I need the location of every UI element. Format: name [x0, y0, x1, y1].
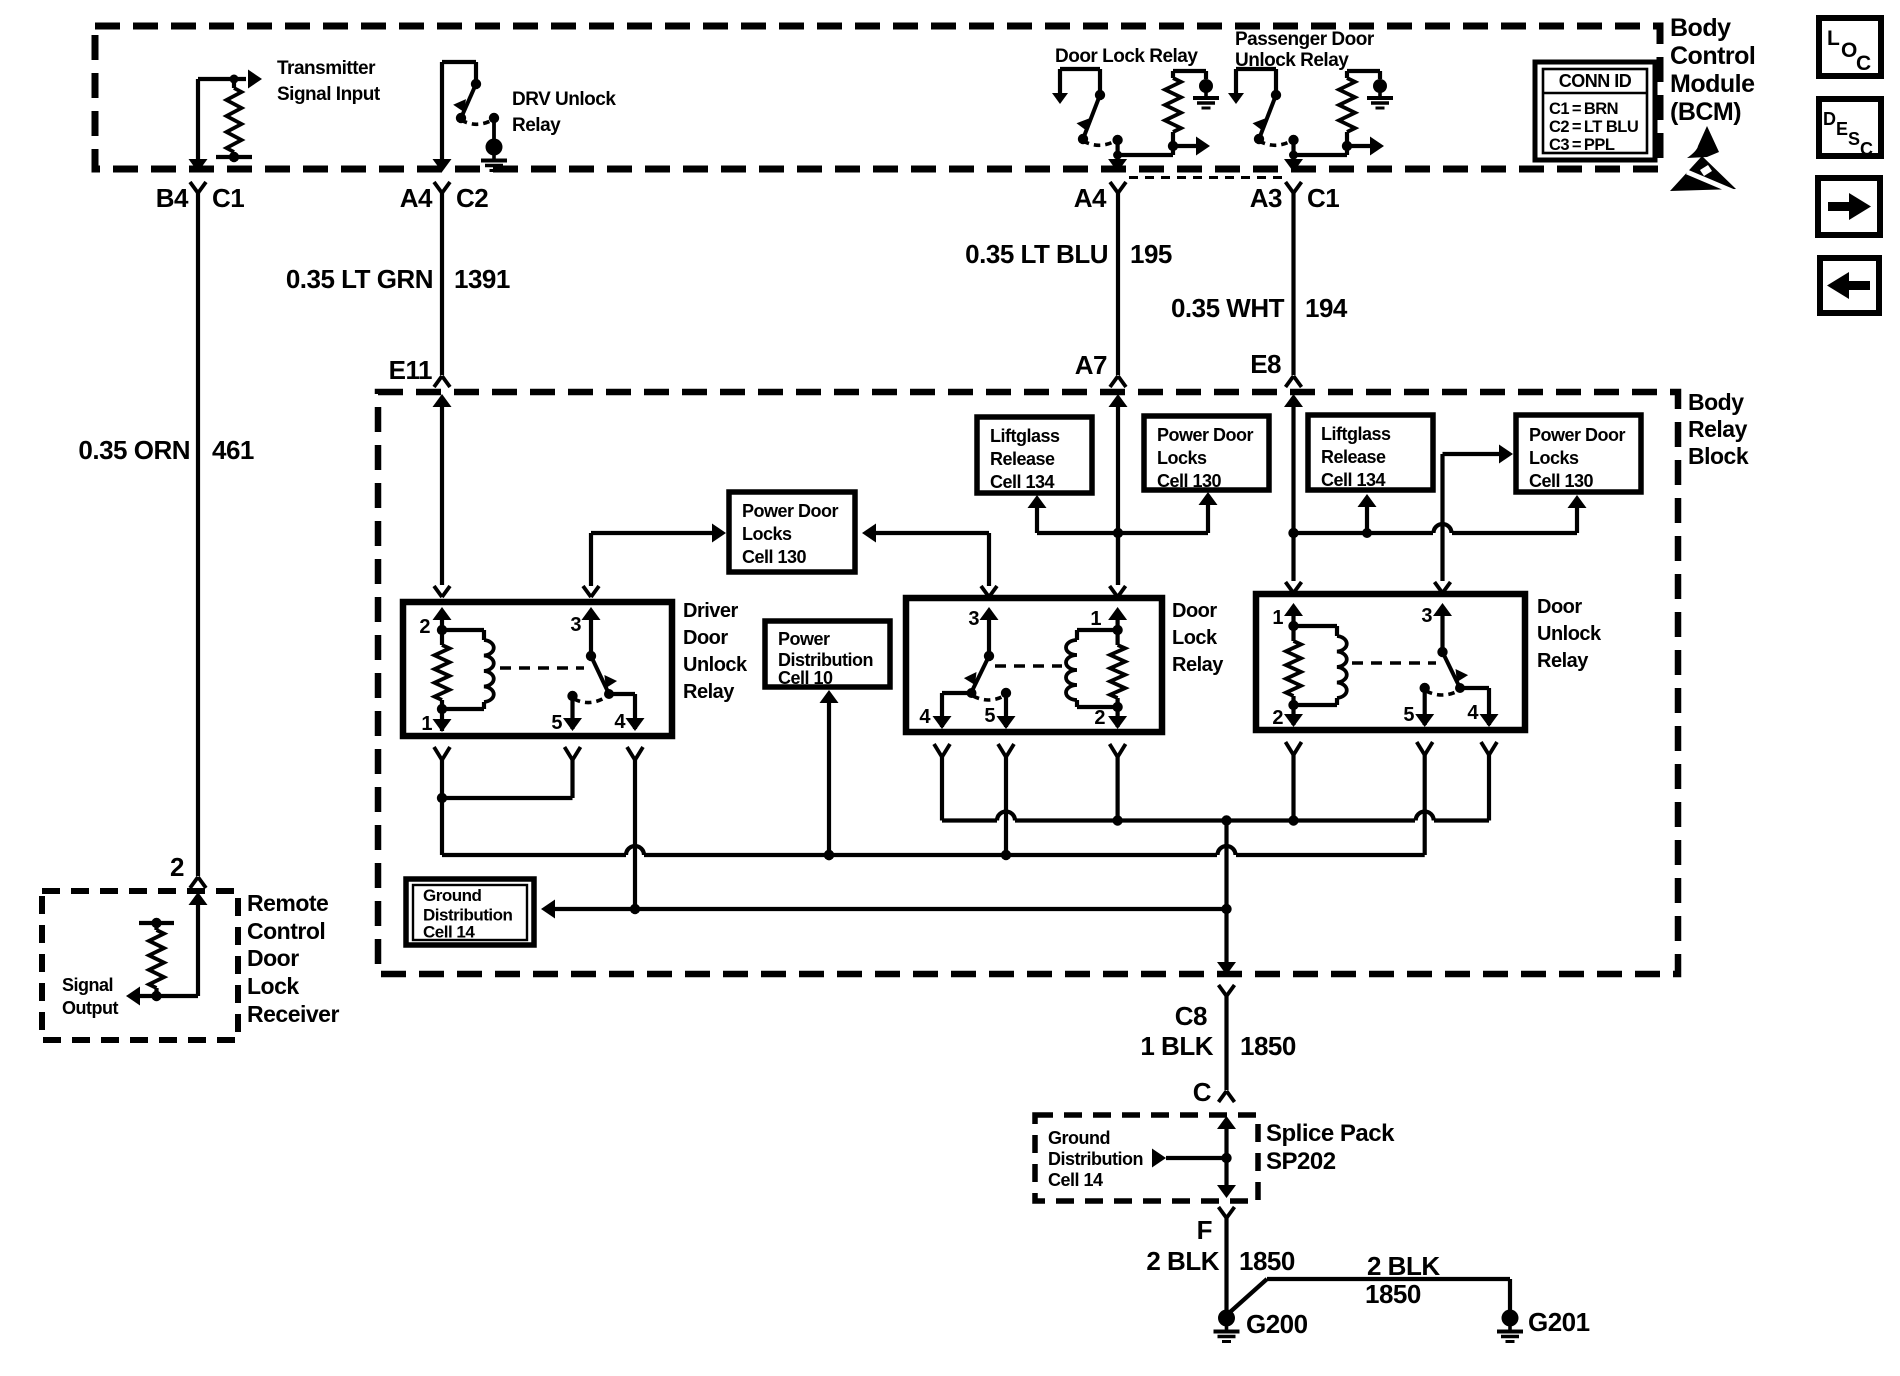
svg-text:Cell 14: Cell 14 [1048, 1170, 1103, 1190]
remote receiver dashed outline [42, 891, 238, 1040]
svg-text:DRV Unlock: DRV Unlock [512, 89, 616, 110]
svg-text:0.35 LT GRN: 0.35 LT GRN [286, 264, 433, 294]
svg-text:1391: 1391 [454, 264, 510, 294]
svg-text:Liftglass: Liftglass [1321, 424, 1391, 444]
arrow to Power Door Locks right [1575, 504, 1579, 533]
pin 1 door unlock relay [1286, 582, 1294, 593]
svg-text:1: 1 [1272, 607, 1283, 629]
svg-text:Door: Door [1172, 600, 1217, 622]
svg-text:Relay: Relay [683, 681, 735, 703]
pin 3 door unlock relay switch [1435, 582, 1443, 593]
svg-text:Body: Body [1670, 14, 1731, 42]
svg-text:4: 4 [614, 711, 626, 733]
ground Passenger relay [1373, 79, 1387, 93]
arrow to Liftglass left [1035, 504, 1039, 533]
svg-text:(BCM): (BCM) [1670, 98, 1741, 126]
Door Lock Relay coil resistor [1115, 140, 1119, 162]
svg-text:1: 1 [1090, 608, 1101, 630]
svg-text:Relay: Relay [512, 115, 561, 136]
Passenger Door Unlock Relay switch [1236, 67, 1276, 71]
relay Driver Door Unlock Relay box [403, 602, 672, 736]
box Power Door Locks Cell 130 middle [1144, 416, 1269, 490]
svg-text:Power: Power [778, 629, 830, 649]
svg-text:Splice Pack: Splice Pack [1266, 1120, 1395, 1147]
output arrow Door Lock Relay [1168, 141, 1178, 151]
svg-text:4: 4 [919, 706, 931, 728]
svg-text:C: C [1856, 52, 1871, 75]
connector strip dashed line [1129, 176, 1288, 179]
wire door lock relay pin3 to Power Door Locks [987, 533, 991, 586]
svg-text:Door: Door [683, 627, 728, 649]
svg-text:Unlock: Unlock [683, 654, 748, 676]
svg-text:E: E [1836, 119, 1848, 139]
ground bus wire [541, 900, 555, 919]
svg-text:E8: E8 [1250, 349, 1281, 379]
svg-text:Ground: Ground [423, 886, 481, 905]
DRV Unlock Relay contact arc [461, 119, 494, 124]
svg-text:C8: C8 [1175, 1001, 1207, 1031]
back arrow button [1820, 258, 1879, 313]
svg-text:Control: Control [1670, 42, 1755, 70]
output arrow Passenger relay [1342, 141, 1352, 151]
svg-text:Cell 134: Cell 134 [1321, 470, 1386, 490]
svg-text:3: 3 [570, 614, 581, 636]
box Power Door Locks Cell 130 left [729, 492, 855, 572]
LOC button [1819, 18, 1881, 76]
svg-text:5: 5 [1403, 704, 1414, 726]
svg-text:C2 = LT BLU: C2 = LT BLU [1549, 118, 1638, 136]
connector F [1219, 1207, 1227, 1218]
pin 2 driver relay [434, 586, 442, 597]
svg-text:A7: A7 [1075, 350, 1107, 380]
coil door lock relay [1077, 628, 1118, 632]
svg-text:Door: Door [1537, 596, 1582, 618]
svg-text:194: 194 [1305, 293, 1348, 323]
svg-text:Cell 130: Cell 130 [742, 547, 807, 567]
svg-text:Remote: Remote [247, 890, 328, 916]
wire A7 distribution [1037, 531, 1208, 535]
arrow to Liftglass right [1365, 503, 1369, 533]
svg-text:1 BLK: 1 BLK [1140, 1031, 1213, 1061]
svg-text:C1: C1 [1307, 183, 1339, 213]
wire 0.35 WHT 194 [1291, 193, 1295, 375]
svg-text:C3 = PPL: C3 = PPL [1549, 136, 1615, 154]
svg-text:2: 2 [419, 616, 430, 638]
connector A4 C2 [434, 182, 442, 193]
connector A3 C1 [1286, 182, 1294, 193]
DRV Unlock Relay switch [440, 62, 444, 162]
pin 2 door lock relay [1115, 707, 1119, 727]
svg-text:Door: Door [247, 945, 299, 971]
svg-text:1: 1 [421, 713, 432, 735]
svg-text:Relay: Relay [1688, 416, 1748, 442]
coil door unlock relay [1294, 624, 1338, 628]
DESC button [1819, 99, 1881, 156]
wire 0.35 LT GRN 1391 [440, 193, 444, 375]
arrow to Power Door Locks middle [1206, 501, 1210, 533]
svg-text:Cell 10: Cell 10 [778, 668, 833, 688]
svg-text:Signal Input: Signal Input [277, 84, 381, 105]
box Power Door Locks Cell 130 right [1516, 415, 1641, 492]
wire B4 to Transmitter Signal Input [196, 79, 200, 162]
svg-text:Release: Release [990, 449, 1055, 469]
svg-text:Distribution: Distribution [1048, 1149, 1143, 1169]
svg-text:3: 3 [1421, 605, 1432, 627]
svg-text:Ground: Ground [1048, 1128, 1110, 1148]
svg-text:Cell 130: Cell 130 [1529, 471, 1594, 491]
Door Lock Relay contact arc [1083, 140, 1117, 145]
box Power Distribution Cell 10 [765, 621, 890, 687]
svg-text:Relay: Relay [1537, 650, 1589, 672]
svg-text:Cell 134: Cell 134 [990, 472, 1055, 492]
svg-text:D: D [1823, 109, 1836, 129]
svg-text:Liftglass: Liftglass [990, 426, 1060, 446]
bus wire unlock relays [442, 853, 626, 857]
resistor receiver [139, 921, 174, 925]
wire 2 BLK 1850 to G200 [1224, 1218, 1228, 1310]
svg-text:S: S [1848, 129, 1860, 149]
svg-text:0.35 LT BLU: 0.35 LT BLU [965, 239, 1108, 269]
svg-text:461: 461 [212, 435, 254, 465]
box Liftglass Release Cell 134 left [977, 417, 1092, 493]
svg-text:SP202: SP202 [1266, 1148, 1336, 1175]
svg-text:0.35 ORN: 0.35 ORN [78, 435, 190, 465]
svg-text:Lock: Lock [1172, 627, 1218, 649]
Passenger relay contact arc [1259, 140, 1293, 145]
svg-text:Body: Body [1688, 389, 1744, 415]
svg-text:5: 5 [984, 705, 995, 727]
pin 4 driver relay [609, 692, 635, 696]
connector E11 [434, 376, 442, 387]
svg-text:2: 2 [1094, 707, 1105, 729]
arrow ground distribution to splice [1152, 1149, 1166, 1168]
svg-text:0.35 WHT: 0.35 WHT [1171, 293, 1285, 323]
svg-text:1850: 1850 [1239, 1246, 1295, 1276]
coil driver relay [442, 628, 484, 632]
connector A7 [1110, 376, 1118, 387]
svg-text:C1 = BRN: C1 = BRN [1549, 100, 1618, 118]
pin 4 door lock relay [942, 691, 972, 695]
svg-text:Control: Control [247, 918, 325, 944]
svg-text:Block: Block [1688, 443, 1749, 469]
door lock relay contact arc [1001, 688, 1011, 698]
relay Door Lock Relay box [906, 598, 1162, 732]
svg-text:Power Door: Power Door [1529, 425, 1626, 445]
connector A4 of C1 [1110, 182, 1118, 193]
svg-text:2 BLK: 2 BLK [1146, 1246, 1219, 1276]
svg-text:Power Door: Power Door [1157, 425, 1254, 445]
wire 0.35 ORN 461 [196, 193, 200, 876]
wire 2 BLK 1850 to G201 [1229, 1279, 1267, 1313]
pin 1 driver relay [440, 709, 444, 731]
dashed coil link door unlock relay [1352, 661, 1436, 664]
wire 1 BLK 1850 [1224, 996, 1228, 1090]
ground G201 [1502, 1310, 1519, 1327]
resistor transmitter pull-up [232, 79, 236, 88]
svg-text:L: L [1827, 27, 1840, 50]
Passenger relay coil resistor [1291, 140, 1295, 162]
svg-text:Door Lock Relay: Door Lock Relay [1055, 46, 1198, 67]
svg-text:4: 4 [1467, 702, 1479, 724]
box Ground Distribution Cell 14 [406, 879, 534, 945]
next arrow button [1818, 178, 1880, 235]
wire C8 drop [1224, 821, 1228, 966]
box Liftglass Release Cell 134 right [1308, 415, 1433, 490]
svg-text:Signal: Signal [62, 975, 113, 995]
svg-text:Passenger Door: Passenger Door [1235, 29, 1375, 50]
svg-text:1850: 1850 [1240, 1031, 1296, 1061]
pin 3 door lock relay switch [981, 586, 989, 597]
wire E8 distribution [1294, 531, 1434, 535]
splice pack SP202 dashed outline [1035, 1115, 1258, 1201]
svg-text:1850: 1850 [1365, 1279, 1421, 1309]
svg-text:195: 195 [1130, 239, 1172, 269]
relay Door Unlock Relay box [1256, 594, 1525, 730]
connector receiver pin 2 [190, 877, 198, 888]
splice pack output [1224, 1158, 1228, 1188]
svg-text:B4: B4 [156, 183, 189, 213]
svg-text:Receiver: Receiver [247, 1001, 339, 1027]
svg-text:G200: G200 [1246, 1309, 1308, 1339]
wire driver pin3 to Power Door Locks [589, 533, 593, 586]
svg-text:Distribution: Distribution [778, 650, 873, 670]
pin 1 door lock relay [1110, 586, 1118, 597]
door unlock relay contact arc [1420, 683, 1430, 693]
svg-text:Unlock Relay: Unlock Relay [1235, 50, 1349, 71]
wire door unlock pin3 to Power Door Locks right [1440, 454, 1444, 581]
resistor driver relay [440, 630, 444, 645]
svg-text:Cell 14: Cell 14 [423, 923, 475, 942]
ground DRV unlock relay [492, 118, 496, 140]
svg-text:E11: E11 [389, 355, 432, 385]
resistor door unlock relay [1291, 626, 1295, 641]
Body Relay Block dashed outline [378, 392, 1678, 974]
connector C splice pack [1219, 1091, 1227, 1102]
ESD sensitivity symbol [1687, 126, 1719, 158]
svg-text:G201: G201 [1528, 1307, 1590, 1337]
svg-text:Power Door: Power Door [742, 501, 839, 521]
svg-text:Module: Module [1670, 70, 1755, 98]
svg-text:Relay: Relay [1172, 654, 1224, 676]
svg-text:2: 2 [1272, 707, 1283, 729]
pin 4 door unlock relay [1460, 686, 1489, 690]
dashed coil link driver relay [500, 666, 584, 669]
svg-text:C1: C1 [212, 183, 244, 213]
wire 0.35 LT BLU 195 [1116, 193, 1120, 375]
svg-text:CONN ID: CONN ID [1559, 71, 1632, 91]
svg-text:A4: A4 [400, 183, 433, 213]
svg-text:C: C [1193, 1077, 1212, 1107]
svg-text:Locks: Locks [1529, 448, 1579, 468]
svg-text:Unlock: Unlock [1537, 623, 1602, 645]
svg-text:C: C [1860, 139, 1873, 159]
svg-text:2 BLK: 2 BLK [1367, 1251, 1440, 1281]
svg-text:F: F [1197, 1215, 1212, 1245]
signal output wire [138, 994, 198, 998]
pin 5 door unlock relay [1423, 688, 1427, 725]
pin 2 door unlock relay [1291, 705, 1295, 725]
bus wire lock relays [942, 818, 997, 822]
Door Lock Relay switch [1060, 67, 1100, 71]
svg-text:Locks: Locks [1157, 448, 1207, 468]
resistor door lock relay [1115, 630, 1119, 645]
svg-text:C2: C2 [456, 183, 488, 213]
svg-text:3: 3 [968, 608, 979, 630]
svg-text:Locks: Locks [742, 524, 792, 544]
svg-text:O: O [1841, 39, 1857, 62]
ground Door Lock Relay [1199, 79, 1213, 93]
dashed coil link door lock relay [995, 664, 1062, 667]
svg-text:Output: Output [62, 998, 118, 1018]
driver relay contact arc [567, 691, 577, 701]
connector E8 [1286, 376, 1294, 387]
BCM module dashed outline [95, 26, 1660, 169]
svg-text:Lock: Lock [247, 973, 299, 999]
wire driver pin1 to pin5 [442, 796, 573, 800]
svg-text:Cell 130: Cell 130 [1157, 471, 1222, 491]
ground G200 [1218, 1310, 1235, 1327]
pin 5 driver relay [570, 696, 574, 729]
pin 5 door lock relay [1004, 693, 1008, 727]
connector B4 C1 [190, 182, 198, 193]
svg-text:Release: Release [1321, 447, 1386, 467]
connector C8 [1219, 985, 1227, 996]
pin 3 driver relay switch [583, 586, 591, 597]
CONN ID table [1535, 62, 1655, 160]
svg-text:A3: A3 [1250, 183, 1282, 213]
svg-text:2: 2 [170, 852, 184, 882]
svg-text:Driver: Driver [683, 600, 739, 622]
svg-text:A4: A4 [1074, 183, 1107, 213]
svg-text:Transmitter: Transmitter [277, 58, 376, 79]
wire power distribution feed [827, 698, 831, 855]
svg-text:5: 5 [551, 712, 562, 734]
